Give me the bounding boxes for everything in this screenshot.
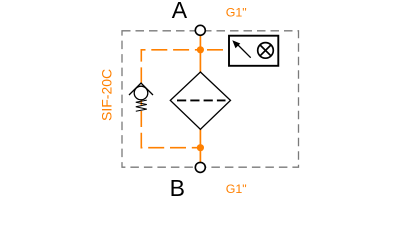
wire: dashed bypass loop (top horizontal, left vertical, bottom horizontal) (141, 50, 200, 148)
svg-text:G1": G1" (226, 182, 247, 196)
spring of bypass check valve (136, 100, 147, 111)
arrow pointing up-left (237, 44, 251, 58)
indicator lamp circle with X (258, 43, 274, 59)
node B1: junction on outlet line (197, 144, 204, 151)
clogging indicator G1 (box with arrow and lamp) (229, 36, 278, 66)
svg-text:SIF-20C: SIF-20C (98, 69, 114, 121)
bypass check valve V1 (ball on seat) (129, 83, 153, 100)
svg-text:G1": G1" (226, 5, 247, 19)
wire: main inlet line from port A to filter (solid) (199, 35, 201, 73)
svg-text:B: B (170, 175, 185, 200)
svg-text:A: A (172, 0, 188, 23)
port A circle (195, 25, 205, 35)
port B circle (195, 162, 205, 172)
filter element F1 (diamond with dashed screen) (170, 72, 230, 129)
wire: dashed pilot line from node A1 to clogging indicator (207, 49, 230, 51)
enclosure dashed boundary of filter assembly (122, 31, 299, 167)
node A1: junction on inlet line (197, 46, 204, 53)
wire: main outlet line from filter to port B (solid) (199, 129, 201, 164)
